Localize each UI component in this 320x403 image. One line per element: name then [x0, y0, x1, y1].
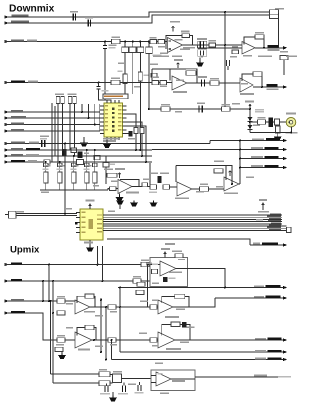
resistor R44 [108, 305, 116, 309]
resistor R20 [210, 81, 219, 85]
wire comb v1 [124, 42, 126, 75]
resistor R57 on drop [105, 156, 107, 184]
label under U11 [165, 316, 179, 318]
wire U9 out [90, 306, 158, 308]
supply +12V U7 [229, 171, 232, 177]
label sprinkle group B bottom [17, 208, 263, 394]
capacitor C8 to gnd [227, 60, 230, 70]
resistor R13 [209, 43, 216, 47]
node clamp [249, 108, 251, 110]
port RIGHT-IN-B arrow [283, 358, 287, 362]
ground caps [112, 392, 114, 396]
resistor R39 on l-mix [141, 262, 149, 267]
resistor R55 column [137, 282, 145, 286]
wire riser v210 [209, 141, 211, 144]
wire feedback right [278, 13, 280, 48]
op-amp U2B [242, 42, 255, 55]
capacitor C7 series [202, 80, 205, 87]
resistor R12 input pair [158, 39, 165, 43]
resistor R35 [200, 187, 209, 191]
resistor R19 feedback [186, 71, 196, 75]
trimmer VR1 [45, 162, 47, 190]
wire drop v106 [105, 307, 107, 360]
wire drop v120 [119, 288, 121, 353]
resistor R8 on comb v1 [123, 74, 127, 84]
IC U1 bottom pins [107, 137, 119, 140]
port SUB-IN arrow [5, 15, 9, 19]
label SUB-IN [12, 15, 29, 17]
resistor R41 inside [152, 269, 158, 273]
capacitor C18 black [123, 386, 126, 393]
resistor row above trimmers [44, 163, 98, 166]
resistor R6 comb [137, 47, 144, 53]
capacitor C5 to gnd cluster [200, 51, 203, 58]
wire right-in net [5, 82, 173, 84]
wire sub-out-a [5, 155, 153, 157]
wire col v62 [61, 104, 63, 150]
supply +12V U3A [177, 63, 180, 69]
trimmer VR2 [59, 162, 61, 190]
wire U5 loop [120, 180, 139, 187]
wire U4 inputs [5, 214, 77, 216]
wire RIGHT output [253, 86, 283, 88]
resistor R3 on left wire [112, 39, 121, 43]
capacitor C14 on frame [175, 254, 183, 258]
wire drop v41 [52, 313, 54, 383]
wire bus b3 [107, 218, 282, 220]
wire SUB out [240, 158, 283, 160]
capacitor C3 below left wire [104, 42, 106, 53]
op-amp U8 [160, 261, 176, 276]
port CENTER arrow [283, 148, 287, 152]
capacitor C2 [88, 20, 90, 27]
port AUX arrow [283, 166, 287, 170]
wire jack bottom [250, 127, 291, 133]
label LEFT-IN [11, 40, 24, 42]
wire sub-mix [5, 313, 76, 340]
capacitor C4 series [198, 41, 207, 49]
capacitor C16 black feedback [182, 322, 187, 328]
resistor R52 feedback [171, 322, 180, 327]
wire drop v101 [98, 265, 102, 353]
wire U7 out riser [239, 183, 240, 185]
op-amp U3B [240, 78, 253, 92]
wire U12 feedback [162, 325, 190, 341]
wire sd-low [5, 124, 101, 126]
trimmer VR3 [73, 156, 75, 190]
resistor R17b loop input [151, 73, 157, 77]
wire FRONT out [118, 287, 283, 289]
resistor R15 U2B input [232, 50, 239, 54]
supply cluster 12V [56, 344, 64, 346]
port R-MIX arrow [5, 279, 9, 283]
wire subw net [5, 15, 270, 23]
resistor R50 feedback [175, 294, 185, 298]
wire left-in net [5, 41, 168, 43]
capacitor C19 black [138, 385, 141, 391]
port CENTER-IN arrow [5, 148, 9, 152]
wire U10 feedback [77, 328, 96, 341]
node trim junctions [135, 149, 137, 151]
wire sd-in [5, 111, 101, 113]
svg-text:Downmix: Downmix [9, 3, 55, 14]
IC U1 ref label [103, 138, 119, 140]
port SUB-OUT-B arrow [5, 160, 9, 164]
resistor R26 hp [222, 107, 231, 112]
op-amp U2A [168, 38, 183, 53]
resistor R45 [57, 311, 65, 315]
port REAR arrow [283, 338, 287, 342]
port L-MIX arrow [5, 263, 9, 267]
wire 4th-ch out [171, 377, 278, 379]
wire riser r88 [88, 104, 90, 118]
label bus names [267, 214, 281, 231]
wire U10 out [92, 339, 158, 341]
wire aux-in [5, 281, 76, 301]
wire riser r94 [94, 104, 96, 125]
resistor R1 top-right [270, 10, 279, 14]
resistor R36 feedback [214, 169, 223, 173]
resistor R23 on drop [134, 128, 138, 134]
wire drop v102 [102, 246, 104, 281]
capacitor C15 black [163, 277, 168, 282]
wire pot feed 2 [53, 382, 99, 384]
resistor R31 U5 in [110, 187, 117, 191]
wire into U6 [170, 186, 178, 188]
resistor R10 feedback [182, 34, 190, 38]
connector J1 jack circle [286, 117, 296, 127]
frame block U8 [150, 258, 188, 287]
wire bus b6 [107, 225, 287, 227]
resistor R51 U12 in [150, 338, 157, 342]
IC U4 inner labels [82, 212, 103, 234]
port LT-RT arrow [5, 142, 9, 146]
IC U4 left pins [76, 213, 80, 233]
wire comb v1 lower [124, 84, 126, 95]
wire AUX out [240, 167, 283, 169]
port latch arrow [283, 139, 287, 143]
ground U4 bottom [89, 240, 91, 246]
wire bus v52 [51, 103, 53, 162]
wire sq-low [5, 130, 101, 132]
wire comb v3 [139, 42, 141, 151]
capacitor C12 on lt-rt [42, 140, 45, 147]
ground bus area 2 [131, 201, 138, 206]
supply +12V U8 [164, 252, 167, 258]
wire REAR out [175, 339, 283, 341]
op-amp U10 [75, 332, 92, 348]
resistor R38 bus end [287, 227, 292, 232]
label LEFT [268, 45, 279, 47]
wire loop return [107, 239, 283, 245]
resistor R42 [57, 299, 65, 304]
wire comb v4 [148, 42, 150, 110]
ground near U3A [199, 58, 201, 61]
svg-text:Upmix: Upmix [10, 244, 40, 255]
wire bus b7 [107, 227, 287, 229]
resistor R56 column [136, 290, 144, 294]
port LEFT-IN-B arrow [283, 350, 287, 354]
supply +12V bus area [262, 203, 265, 210]
IC U1 pin labels [105, 105, 122, 130]
wire latch out [210, 140, 283, 142]
wire jack feed [250, 121, 287, 123]
resistor R34 center chain [163, 185, 170, 189]
op-amp U3A [172, 76, 187, 90]
resistor R53 [99, 372, 110, 377]
resistor R25 hp [161, 107, 170, 111]
wire headphone feed [149, 108, 250, 110]
wire drop to U4 [64, 144, 66, 214]
resistor R22 feedback [253, 72, 262, 76]
ground below U1 [106, 140, 108, 142]
wire pot out [110, 374, 151, 383]
ground jack [277, 133, 279, 135]
supply +12V U5 [118, 173, 121, 179]
port SQ-BANK arrow [5, 116, 9, 120]
wire sq-bank [5, 117, 101, 119]
port LEFT-IN arrow [5, 40, 9, 44]
wire U3A feedback loop [152, 69, 197, 83]
node left junction [104, 41, 106, 43]
wire U2A out [183, 45, 243, 48]
wire riser r99 [99, 104, 101, 131]
wire U9 feedback [77, 296, 95, 307]
wire col v58 [57, 104, 59, 164]
wire drop v147 [148, 265, 151, 308]
resistor R17 input pair [152, 80, 159, 84]
capacitor C9 right of U1 [129, 131, 133, 137]
ground cluster [61, 352, 63, 354]
resistor R7 comb [146, 47, 153, 54]
label sprinkle group A top [45, 8, 298, 193]
resistor R16 on right wire [111, 80, 120, 84]
supply +12V clamp [249, 104, 252, 106]
wire sub-out-b [5, 161, 153, 163]
op-amp U6 [177, 182, 192, 196]
op-amp U12 [158, 332, 175, 348]
port FRONT arrow [283, 286, 287, 290]
resistor R21 right col [280, 55, 288, 59]
resistor R54 [99, 381, 110, 386]
resistor network RP1 wide box [103, 94, 128, 99]
capacitor C1 [73, 14, 75, 21]
port SD-IN arrow [5, 110, 9, 114]
label SUBW [11, 21, 29, 23]
port SD-LOW arrow [5, 123, 9, 127]
IC U4 pin1 mark [75, 222, 78, 225]
resistor R24 on drop [140, 128, 144, 134]
capacitor C13 center chain [158, 176, 162, 183]
capacitor C6 below right wire [98, 82, 100, 84]
resistor R46 [57, 338, 65, 343]
wire drop v51 [50, 301, 52, 374]
resistor R29 below jack [276, 126, 281, 133]
port RIGHT-IN arrow [5, 81, 9, 85]
resistor R18 input pair [160, 80, 167, 84]
port SQ-LOW arrow [5, 129, 9, 133]
port LOOP arrow [283, 243, 287, 247]
op-amp U11 [158, 300, 173, 314]
wire bus v55 [54, 106, 56, 156]
ground below U1 left [83, 137, 85, 141]
port AUX-IN arrow [5, 299, 9, 303]
wire bus b1 [107, 214, 282, 216]
ground U4 top right [119, 204, 121, 210]
wire U3A out [187, 82, 240, 84]
wire U1 right drops [127, 114, 147, 162]
port LEFT out arrow [283, 46, 287, 50]
wire drop v97 [97, 246, 99, 265]
wire U7 feedback loop [176, 166, 232, 185]
diode D1 D2 clamp [249, 105, 251, 133]
op-amp U7 [224, 177, 239, 191]
port SUB-OUT-A arrow [5, 154, 9, 158]
wire LEFT-IN-B out [120, 351, 283, 353]
potentiometer VR6 [113, 374, 122, 383]
port RIGHT out arrow [283, 85, 287, 89]
resistor R33 center chain [150, 185, 157, 189]
resistor R9 on comb v3 [138, 72, 142, 81]
trimmer VR4 [86, 150, 88, 190]
IC U4 right pins [103, 215, 107, 230]
resistor R49 U11 in [150, 305, 157, 309]
wire bus b5 [107, 223, 282, 225]
wire U2B feedback loop [244, 37, 264, 48]
resistor R47 feedback [85, 325, 94, 329]
node comb junctions [124, 41, 126, 43]
wire riser r82 [81, 104, 83, 112]
resistor R28 jack [275, 119, 280, 125]
wire U11 feedback [162, 296, 189, 307]
wire center-in [5, 149, 153, 151]
port SUB arrow [283, 157, 287, 161]
wire caps bus [107, 382, 140, 386]
capacitor C17 black [105, 386, 108, 393]
supply +12V U2A [172, 26, 175, 32]
wire trim bus [40, 189, 108, 191]
wire U5 out [132, 163, 150, 187]
wire into U5 [108, 189, 118, 191]
op-amp U5 [118, 180, 132, 194]
ground bus area 1 [150, 201, 157, 206]
resistor R40 on r-mix [133, 279, 141, 284]
resistor R30 on sub-out-b [44, 160, 50, 164]
wire sub-in net [5, 12, 270, 17]
wire RIGHT-IN-B out [112, 359, 284, 361]
capacitor C21 black mid [62, 149, 67, 156]
wire bus b4 [107, 221, 282, 223]
resistor R32 [142, 183, 148, 187]
resistor R43 feedback [85, 294, 94, 298]
wire REAR-C out [173, 298, 283, 307]
label RIGHT [267, 84, 278, 86]
resistor R5 comb [129, 47, 136, 53]
resistor R14 feedback [255, 35, 264, 39]
resistor R11 input pair [150, 39, 157, 43]
resistor R2 top-right [270, 14, 279, 18]
wire lt-rt [5, 143, 211, 145]
wire U8 out riser [176, 269, 225, 288]
resistor column tops [56, 97, 60, 104]
port SUB-MIX arrow [5, 311, 9, 315]
wire r-mix [5, 280, 151, 282]
wire pot feed 1 [51, 373, 100, 375]
supply +12V U4 [89, 204, 92, 209]
frame block U13 [151, 370, 195, 391]
wire U2A feedback loop [166, 36, 193, 50]
resistor R4 comb [122, 47, 129, 53]
capacitor C10 hp [199, 106, 202, 113]
wire comb v2 [132, 42, 134, 95]
resistor R37 U4 in [9, 211, 17, 218]
IC U1 left pins [100, 106, 104, 134]
IC U4 body [80, 209, 103, 240]
wire col v74 [73, 104, 75, 157]
wire drop v53 [52, 281, 54, 313]
wire LEFT output [255, 47, 283, 49]
wire col v70 [69, 104, 71, 151]
node trimmer taps [45, 161, 47, 163]
capacitor C20 black near wire150 [78, 152, 83, 159]
resistor R59 mid [94, 155, 100, 160]
capacitor C11 jack black [269, 118, 274, 128]
label RIGHT-IN [11, 80, 25, 82]
IC U1 right pins [123, 106, 127, 134]
wire bus b2 [107, 216, 282, 218]
wire l-mix [5, 264, 161, 266]
op-amp U13 [156, 372, 171, 386]
wire CENTER out [152, 149, 283, 151]
IC U1 top pins [107, 100, 119, 103]
wire drop v49 [48, 265, 50, 302]
wire rail v225 [224, 12, 226, 109]
wire U13 in stubs [151, 376, 156, 383]
trimmer VR5 [94, 150, 96, 190]
resistor R58 mid [71, 148, 77, 153]
IC U1 inner switches [112, 108, 115, 132]
IC U1 body [104, 103, 123, 137]
port REAR-C arrow [283, 296, 287, 300]
resistor R48 [108, 338, 116, 342]
op-amp U9 [75, 300, 90, 314]
wire drop v111 [111, 340, 113, 360]
port SUBW arrow [5, 21, 9, 25]
wire bus b8 [107, 230, 288, 232]
wire U6 out [192, 188, 224, 190]
wire drop to IC1 [105, 52, 107, 103]
wire U3B feedback loop [242, 74, 262, 87]
resistor R27 jack [258, 120, 266, 125]
